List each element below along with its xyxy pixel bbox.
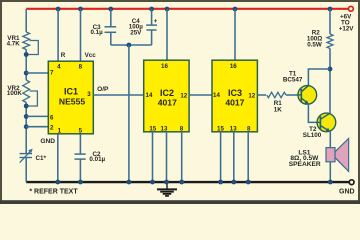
- svg-text:8: 8: [247, 125, 251, 132]
- node pin2 branch: [24, 124, 29, 129]
- node pin7 branch: [24, 71, 29, 76]
- transistor T1: [298, 86, 317, 105]
- wire pin5 down to C2: [79, 135, 81, 154]
- wire to pin 6: [26, 115, 48, 117]
- wire: VR chain top: [25, 9, 27, 32]
- GND terminal: [349, 180, 354, 185]
- svg-text:15: 15: [149, 125, 156, 132]
- node pin1/rail: [55, 180, 60, 185]
- ground symbol: [157, 182, 177, 196]
- node pin13/rail: [231, 180, 236, 185]
- node pin8/rail: [179, 180, 184, 185]
- wire rail to R2: [329, 9, 331, 34]
- op IC3 4017: [212, 60, 257, 132]
- wire rail to C4: [151, 9, 153, 25]
- svg-text:1: 1: [58, 127, 62, 134]
- wire IC2 pin15 to ground: [152, 132, 154, 182]
- svg-text:6: 6: [50, 114, 54, 121]
- svg-text:4: 4: [57, 63, 61, 70]
- node C2/rail: [78, 180, 83, 185]
- svg-text:12: 12: [180, 92, 187, 99]
- wire T1 emitter to T2 base: [308, 104, 317, 123]
- op IC2 4017: [144, 60, 189, 132]
- VR2 wiper loop: [26, 91, 37, 106]
- svg-text:SL100: SL100: [303, 132, 322, 139]
- svg-text:14: 14: [146, 92, 153, 99]
- wire O/P pin3 to IC2 pin14: [93, 94, 143, 96]
- svg-text:8: 8: [79, 63, 83, 70]
- node pin8/rail: [246, 180, 251, 185]
- svg-text:2: 2: [50, 124, 54, 131]
- node rail/C3: [108, 7, 113, 12]
- wire rail to IC3 pin16: [234, 9, 236, 60]
- wire: VR1 to VR2: [25, 50, 27, 81]
- svg-text:3: 3: [87, 91, 91, 98]
- wire R1 to T1 base: [286, 94, 298, 96]
- node join/rail: [126, 180, 131, 185]
- svg-text:0.1µ: 0.1µ: [90, 29, 103, 36]
- wire IC2 pin12 to IC3 pin14: [189, 94, 212, 96]
- border frame: [0, 0, 360, 2]
- +V terminal: [349, 6, 354, 11]
- svg-text:+12V: +12V: [339, 26, 355, 33]
- svg-text:R: R: [61, 52, 66, 59]
- wire join to ground rail: [128, 45, 130, 182]
- svg-text:14: 14: [213, 92, 220, 99]
- resistor R1: [267, 92, 286, 97]
- svg-text:16: 16: [230, 63, 237, 70]
- node rail/R2: [328, 7, 333, 12]
- svg-text:12: 12: [248, 92, 255, 99]
- node join: [126, 43, 131, 48]
- ground rail (black): [26, 181, 348, 183]
- svg-text:GND: GND: [40, 138, 55, 145]
- transistor T2: [317, 113, 336, 132]
- resistor VR1: [23, 32, 30, 50]
- capacitor C2: [75, 154, 86, 159]
- svg-text:+: +: [154, 18, 158, 25]
- op IC1 NE555: [48, 61, 93, 134]
- node VR2 bottom: [24, 104, 29, 109]
- svg-text:GND: GND: [339, 188, 355, 195]
- node pin15/rail: [150, 180, 155, 185]
- node on +V rail for pin4: [56, 7, 61, 12]
- capacitor C1 (variable): [20, 151, 33, 163]
- wire IC2 pin13 to ground: [166, 132, 168, 182]
- node rail/C4: [149, 7, 154, 12]
- svg-text:100K: 100K: [7, 90, 22, 97]
- node rail/IC2 pin16: [165, 7, 170, 12]
- wire to pin 7: [26, 72, 48, 74]
- wire rail to pin 4: [57, 9, 59, 61]
- capacitor C3: [105, 27, 117, 33]
- wire C3-C4 join: [111, 44, 152, 46]
- node pin15/rail: [218, 180, 223, 185]
- wire C4 to join: [151, 30, 153, 45]
- wire: VR2 down to C1: [25, 103, 27, 154]
- svg-text:5: 5: [79, 127, 83, 134]
- wire IC2 pin8 to ground: [181, 132, 183, 182]
- wire pin1 to ground rail: [57, 135, 59, 183]
- wire C2 to ground rail: [79, 159, 81, 182]
- svg-text:8: 8: [180, 125, 184, 132]
- wire R2 to collectors: [329, 49, 331, 114]
- svg-text:4.7K: 4.7K: [7, 40, 21, 47]
- node VR1 bottom: [24, 52, 29, 57]
- svg-text:25V: 25V: [130, 30, 142, 37]
- svg-text:SPEAKER: SPEAKER: [289, 161, 321, 168]
- VR1 wiper loop: [26, 41, 38, 55]
- svg-text:Vcc: Vcc: [85, 52, 97, 59]
- svg-text:0.01µ: 0.01µ: [89, 156, 105, 163]
- node rail/IC3 pin16: [233, 7, 238, 12]
- wire: C1 to ground rail: [25, 158, 27, 183]
- speaker LS1: [326, 138, 349, 171]
- resistor R2: [327, 34, 333, 49]
- svg-text:4017: 4017: [158, 97, 177, 107]
- wire rail to IC2 pin16: [166, 9, 168, 60]
- resistor VR2: [23, 80, 30, 103]
- wire node to T1 collector: [308, 69, 330, 86]
- node on +V rail for pin8: [78, 7, 83, 12]
- wire IC3 pin13 to ground: [233, 132, 235, 182]
- node collectors: [328, 67, 333, 72]
- wire to pin 2: [26, 126, 48, 128]
- node pin13/rail: [164, 180, 169, 185]
- wire rail to pin 8: [80, 9, 82, 61]
- svg-text:16: 16: [161, 63, 168, 70]
- svg-text:15: 15: [217, 125, 224, 132]
- +V rail (red): [26, 8, 348, 10]
- wire rail to C3: [110, 9, 112, 26]
- svg-text:BC547: BC547: [283, 77, 303, 84]
- wire IC3 pin15 to ground: [220, 132, 222, 182]
- node pin6 branch: [24, 114, 29, 119]
- wire speaker to ground rail: [329, 162, 331, 182]
- node speaker/rail: [328, 180, 333, 185]
- wire IC3 pin12 to R1: [257, 94, 266, 96]
- svg-text:4017: 4017: [225, 97, 244, 107]
- svg-text:* REFER TEXT: * REFER TEXT: [29, 188, 78, 195]
- svg-text:C1*: C1*: [36, 155, 47, 162]
- wire T2 emitter to speaker: [329, 132, 331, 148]
- svg-text:NE555: NE555: [59, 96, 85, 106]
- capacitor C4: [146, 25, 157, 30]
- wire IC3 pin8 to ground: [247, 132, 249, 182]
- svg-text:7: 7: [50, 70, 54, 77]
- svg-text:IC1: IC1: [64, 87, 78, 97]
- svg-text:1K: 1K: [274, 106, 282, 113]
- wire C3 to join: [110, 32, 112, 45]
- svg-text:O/P: O/P: [97, 86, 109, 93]
- svg-text:0.5W: 0.5W: [307, 41, 322, 48]
- svg-text:13: 13: [161, 125, 168, 132]
- svg-text:13: 13: [230, 125, 237, 132]
